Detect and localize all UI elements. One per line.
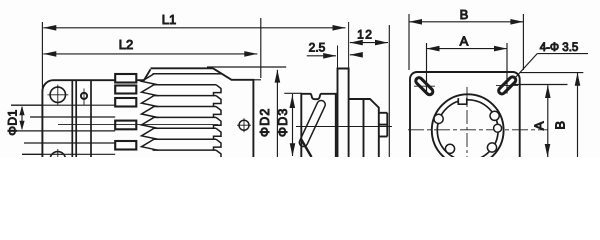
svg-text:A: A (532, 121, 547, 130)
keyway bumps (434, 111, 502, 153)
flange / body outline (42, 68, 253, 157)
svg-text:4-Φ 3.5: 4-Φ 3.5 (540, 42, 579, 54)
front view flange (410, 72, 520, 157)
dimension L2 (43, 18, 261, 80)
svg-text:B: B (553, 121, 568, 130)
dimension PhiD1 (19, 106, 24, 130)
rib right chevrons (214, 74, 222, 158)
svg-text:L1: L1 (162, 12, 176, 27)
shell inner circle (437, 100, 498, 161)
dimension PhiD3 (284, 93, 302, 156)
svg-text:2.5: 2.5 (309, 41, 326, 55)
svg-text:ΦD3: ΦD3 (276, 107, 290, 137)
key slot (458, 98, 467, 104)
svg-text:12: 12 (357, 28, 373, 42)
bottom wedge (301, 140, 311, 158)
wire lines (cable strands at left) (11, 105, 42, 154)
svg-text:ΦD1: ΦD1 (6, 109, 20, 135)
front view centerlines (408, 87, 548, 157)
centerline (middle view axis) (296, 126, 392, 128)
dimension 2.5 (307, 52, 363, 59)
flange screw hole top (48, 85, 69, 106)
centerline (side view axis) (58, 124, 218, 126)
dimension PhiD2 (207, 67, 286, 157)
svg-text:A: A (460, 34, 469, 49)
svg-text:L2: L2 (119, 37, 133, 52)
rib thread lines (153, 74, 217, 150)
ext line for 2.5 left (337, 46, 339, 69)
mounting slot top-left (414, 76, 435, 96)
dimension A top (427, 43, 508, 94)
svg-text:B: B (460, 7, 469, 22)
dimension B right (520, 73, 584, 157)
dimension L1 (42, 22, 345, 88)
clamp screw rectangles (115, 74, 136, 150)
clip spring (slanted capsule) (298, 99, 327, 148)
rib left chevrons (142, 74, 159, 150)
flange body horizontal lines (42, 105, 115, 154)
shell outer circle (432, 94, 504, 166)
dimension B top (409, 14, 523, 70)
small pin circle (81, 89, 87, 106)
mounting plate (edge-on) (338, 22, 349, 157)
mounting slot top-right (496, 76, 518, 96)
svg-text:ΦD2: ΦD2 (258, 107, 272, 137)
rear body of receptacle (349, 99, 388, 157)
label 4-phi3.5 (514, 54, 588, 79)
dimension A right (512, 85, 568, 158)
end cap screw circle (237, 118, 251, 132)
mounting slot bottom-left (414, 158, 434, 178)
mounting slot bottom-right (497, 158, 517, 178)
section boundary verticals (72, 80, 91, 157)
dimension 12 (350, 25, 390, 157)
barrel (middle view body) (301, 94, 336, 157)
flange screw hole bottom (cut off) (50, 149, 65, 167)
